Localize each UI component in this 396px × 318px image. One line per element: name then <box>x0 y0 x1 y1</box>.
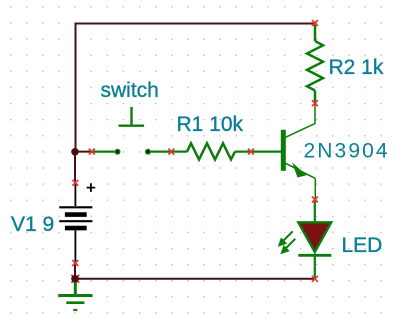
LED D1 <box>298 201 331 278</box>
wire: junction down to battery + pin <box>74 152 76 183</box>
ground <box>58 280 92 310</box>
battery plus sign <box>87 183 96 192</box>
pin connection marker: LED anode pin <box>312 197 318 203</box>
pin connection marker: R2 top pin <box>312 20 318 26</box>
wire: battery - pin down to ground junction <box>74 263 76 279</box>
wire: junction to switch pin <box>75 151 93 153</box>
pin connection marker: R2 bottom pin <box>312 100 318 106</box>
transistor emitter arrowhead <box>292 162 307 177</box>
svg-text:V1 9: V1 9 <box>11 213 54 236</box>
transistor Q1 2N3904 <box>281 104 316 199</box>
junction node at ground rail <box>71 275 79 283</box>
pin connection marker: battery + pin <box>72 180 78 186</box>
battery V1 <box>59 184 92 263</box>
pin connection marker: R1 right pin <box>248 149 254 155</box>
switch (pushbutton, open) <box>93 107 172 152</box>
wire: top rail from top-left corner to R2 top <box>76 24 316 153</box>
resistor R2 <box>307 25 323 104</box>
svg-text:R1 10k: R1 10k <box>177 113 244 136</box>
pin connection marker: battery - pin <box>72 260 78 266</box>
resistor R1 <box>172 143 281 159</box>
pin connection marker: R1 left pin <box>168 149 174 155</box>
junction node at switch/battery tap <box>71 148 79 156</box>
svg-text:switch: switch <box>101 79 159 102</box>
pin connection marker: switch left pin <box>89 149 95 155</box>
pin connection marker: LED cathode pin <box>312 276 318 282</box>
svg-text:2N3904: 2N3904 <box>304 139 390 162</box>
pin connection marker: ground junction <box>71 275 79 283</box>
LED light arrow 2 <box>280 239 295 255</box>
svg-text:R2 1k: R2 1k <box>329 56 384 79</box>
wire: bottom rail from ground junction to LED cathode <box>75 278 315 280</box>
LED light arrow 1 <box>278 231 293 247</box>
svg-text:LED: LED <box>342 234 383 257</box>
